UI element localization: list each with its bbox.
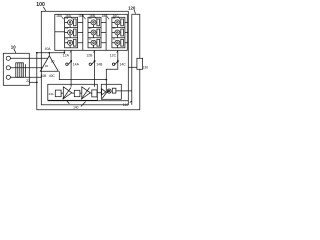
leader 110 — [130, 101, 132, 102]
label 100 — [36, 2, 45, 8]
svg-text:110: 110 — [123, 103, 129, 107]
wire motor phase v — [10, 67, 42, 69]
inverter box — [55, 14, 128, 50]
motor inner block — [16, 63, 23, 78]
leg B cell stack — [88, 17, 101, 48]
block out — [112, 88, 116, 93]
wire motor phase w — [10, 76, 41, 78]
svg-text:14B: 14B — [96, 62, 103, 66]
label 12B — [86, 53, 93, 57]
wire exterior loop — [37, 14, 140, 110]
block 24B — [74, 90, 80, 96]
leg A cell stack — [65, 17, 78, 48]
svg-text:40C: 40C — [49, 74, 56, 78]
amp 20 triangle — [40, 56, 58, 72]
label 110 — [123, 103, 129, 107]
svg-text:24A: 24A — [49, 92, 54, 96]
wire left drop — [36, 53, 38, 83]
wire pwm out — [116, 90, 132, 92]
label 18C — [102, 14, 109, 18]
svg-text:12C: 12C — [110, 53, 117, 57]
label 12C — [110, 53, 117, 57]
leg C cell texts — [113, 17, 116, 40]
node phase top right — [63, 52, 65, 54]
label 10 — [11, 44, 16, 49]
leader 18B — [84, 17, 86, 20]
label 18B — [78, 14, 85, 18]
svg-text:12A: 12A — [63, 53, 70, 57]
svg-text:40A: 40A — [45, 47, 52, 51]
leader for 120 — [134, 10, 135, 14]
label 120 — [128, 5, 136, 10]
svg-text:14A: 14A — [73, 62, 80, 66]
wire bottom bus — [48, 100, 129, 102]
pwm box right — [101, 84, 121, 99]
label 20 — [51, 59, 55, 63]
resistor 130 — [137, 58, 143, 69]
leader 16B — [95, 17, 97, 20]
terminal circle 3 — [6, 75, 10, 79]
label 18A — [56, 14, 63, 18]
label 16B — [89, 14, 96, 18]
label 16A — [65, 14, 72, 18]
amp tri 2 — [82, 87, 91, 99]
block 24C — [92, 90, 97, 97]
wire gate bus A — [78, 14, 83, 50]
svg-text:12B: 12B — [86, 53, 93, 57]
wire row joins — [61, 92, 102, 94]
svg-text:130: 130 — [143, 65, 149, 69]
leader 16C — [118, 17, 120, 20]
motor box 10 — [3, 53, 29, 85]
leader 12A — [70, 51, 71, 53]
label 16C — [113, 14, 120, 18]
leader 18A — [62, 17, 64, 20]
leader 18C — [107, 17, 109, 20]
tick bus — [67, 101, 70, 104]
amp tri 1 — [63, 87, 72, 99]
leader for 10 — [14, 49, 16, 53]
svg-text:30: 30 — [45, 64, 49, 68]
leader 16A — [71, 17, 73, 20]
leader for 100 — [43, 7, 46, 11]
svg-text:40B: 40B — [41, 74, 48, 78]
motor inner detail — [18, 63, 26, 78]
leg C cell stack — [112, 17, 125, 48]
label 40B — [41, 74, 56, 78]
wire phase top — [37, 50, 65, 53]
label 40A — [45, 47, 52, 51]
wire right inner vertical — [131, 14, 133, 105]
current sensor 14B — [91, 61, 95, 66]
arrow diag pwm — [102, 91, 108, 99]
current sensor 14A — [68, 61, 72, 66]
label 22 — [26, 79, 30, 83]
outer box 100 — [41, 11, 128, 105]
current sensor 14C — [114, 61, 118, 66]
svg-text:140: 140 — [73, 105, 79, 109]
mixer x — [108, 90, 110, 92]
terminal circle 2 — [6, 66, 10, 70]
svg-text:14C: 14C — [120, 62, 127, 66]
svg-text:120: 120 — [128, 5, 136, 10]
label 140 — [73, 105, 79, 109]
label 12A — [63, 53, 70, 57]
wire motor phase u — [10, 57, 47, 59]
wire tick inv left — [55, 31, 65, 33]
wire gate ticks C — [125, 22, 128, 42]
label 24A — [49, 92, 54, 96]
wire tick to 130 — [128, 66, 137, 68]
wire leg C down — [106, 50, 118, 91]
wire 22 stub — [29, 81, 37, 83]
terminal circle 1 — [6, 56, 10, 60]
node phase top left — [36, 52, 38, 54]
comparator box left — [48, 84, 98, 100]
wire leg B down — [94, 50, 96, 87]
wire gate bus B — [101, 14, 106, 50]
leg A cell texts — [65, 17, 68, 40]
leader 140 — [81, 102, 86, 107]
wire leg A down — [70, 50, 72, 87]
label 30 — [45, 64, 49, 68]
mixer circle — [107, 89, 111, 93]
leg B cell texts — [89, 17, 92, 40]
wire amp base down — [59, 71, 106, 79]
block 24A — [55, 90, 61, 97]
background — [0, 0, 150, 120]
leader 12C — [117, 51, 118, 53]
arrow through tri 1 — [63, 88, 71, 100]
svg-text:20: 20 — [51, 59, 55, 63]
leader 12B — [93, 51, 94, 53]
wire amp out stub — [48, 53, 50, 56]
amp tri 3 — [102, 89, 106, 95]
svg-text:10: 10 — [11, 44, 16, 49]
label 130 — [143, 65, 149, 69]
node 22 — [36, 81, 38, 83]
arrow through tri 2 — [81, 88, 89, 100]
node amp out — [48, 52, 50, 54]
